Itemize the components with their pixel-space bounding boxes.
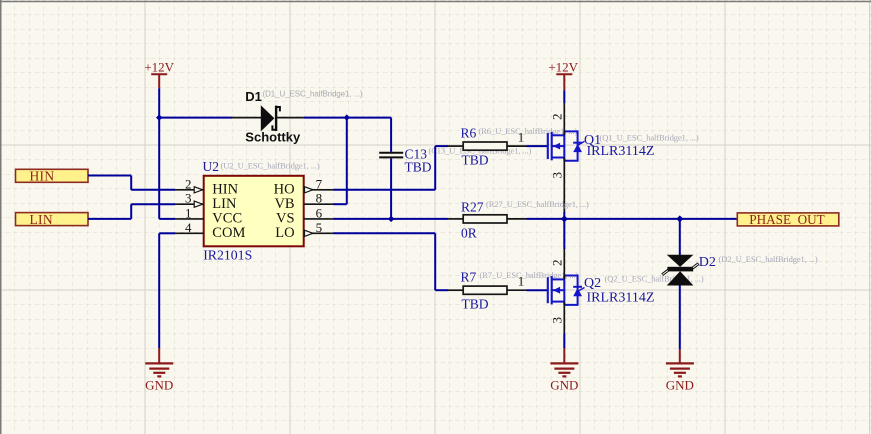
junction D1 cathode / VB riser bbox=[344, 114, 350, 120]
resistor R6 bbox=[448, 142, 527, 150]
D1 designator bbox=[245, 89, 262, 104]
C13 parameter text bbox=[429, 145, 532, 155]
Q2 source pin 3 bbox=[549, 302, 564, 334]
U2 pin 6 (VS) right bbox=[276, 205, 333, 226]
Q1 drain pin 2 bbox=[549, 103, 564, 135]
svg-text:3: 3 bbox=[549, 172, 564, 179]
svg-text:(D1_U_ESC_halfBridge1, ...): (D1_U_ESC_halfBridge1, ...) bbox=[263, 90, 363, 99]
U2 pin 8 (VB) right bbox=[274, 191, 333, 212]
capacitor C13 bbox=[379, 153, 403, 158]
svg-text:8: 8 bbox=[316, 191, 323, 206]
ground GND (left, COM) bbox=[145, 348, 173, 393]
svg-text:LO: LO bbox=[275, 225, 294, 241]
wire U2 LO to R7 bbox=[334, 233, 449, 290]
wire R7 to Q2 gate bbox=[527, 289, 548, 291]
svg-text:COM: COM bbox=[212, 225, 245, 241]
Q1 source pin 3 bbox=[549, 158, 564, 213]
D1 value Schottky bbox=[245, 130, 301, 145]
wire U2 COM to GND bbox=[159, 233, 175, 348]
wire Q2 source to GND bbox=[563, 334, 565, 349]
wire U2 HO to R6 bbox=[334, 146, 449, 190]
U2 part number IR2101S bbox=[203, 248, 252, 263]
wire D1 cathode to VB riser and C13 bbox=[304, 117, 392, 119]
wire phase node bbox=[527, 218, 738, 220]
ground GND (right, D2) bbox=[666, 349, 694, 392]
Q2 drain pin 2 bbox=[549, 249, 564, 279]
svg-text:Q2: Q2 bbox=[584, 276, 601, 291]
transistor Q1 body bbox=[548, 131, 582, 160]
svg-text:2: 2 bbox=[185, 176, 192, 191]
svg-text:7: 7 bbox=[316, 176, 323, 191]
svg-text:LIN: LIN bbox=[30, 212, 53, 227]
R7 pin 1 number bbox=[518, 274, 525, 289]
svg-text:TBD: TBD bbox=[462, 297, 489, 312]
svg-text:VB: VB bbox=[274, 196, 294, 212]
svg-text:0R: 0R bbox=[461, 225, 477, 240]
svg-text:+12V: +12V bbox=[144, 60, 174, 75]
diode D1 Schottky bbox=[232, 105, 304, 131]
svg-text:GND: GND bbox=[550, 378, 578, 393]
R6 parameter text bbox=[479, 126, 578, 136]
R6 pin 1 number bbox=[518, 129, 525, 144]
U2 pin 3 (LIN) left bbox=[175, 191, 237, 212]
Q1 part number IRLR3114Z bbox=[587, 144, 655, 159]
wire phase to D2 bbox=[679, 219, 681, 255]
wire D2 to GND bbox=[679, 286, 681, 350]
svg-text:2: 2 bbox=[549, 114, 564, 121]
R6 value TBD bbox=[462, 153, 489, 168]
svg-text:1: 1 bbox=[185, 205, 192, 220]
transistor Q2 body bbox=[548, 276, 582, 305]
U2 pin 1 (VCC) left bbox=[175, 205, 242, 226]
Q1 parameter text bbox=[600, 133, 699, 143]
op-amp U2 IR2101S body bbox=[204, 176, 304, 247]
svg-text:(R27_U_ESC_halfBridge1, ...): (R27_U_ESC_halfBridge1, ...) bbox=[486, 199, 589, 209]
wire VB riser bbox=[334, 118, 347, 205]
svg-text:U2: U2 bbox=[203, 159, 220, 174]
svg-text:IRLR3114Z: IRLR3114Z bbox=[587, 291, 655, 306]
svg-text:2: 2 bbox=[549, 260, 564, 267]
D2 parameter text bbox=[719, 254, 818, 264]
resistor R7 bbox=[448, 286, 527, 294]
junction C13 / VS row bbox=[388, 216, 394, 222]
svg-text:4: 4 bbox=[185, 220, 192, 235]
svg-text:R7: R7 bbox=[461, 270, 477, 285]
C13 designator bbox=[405, 147, 428, 162]
wire LIN to U2 pin 3 bbox=[88, 204, 175, 219]
svg-text:D1: D1 bbox=[245, 89, 262, 104]
R6 designator bbox=[461, 126, 477, 141]
wire Q1 source to phase bbox=[563, 212, 565, 219]
ground GND (middle, Q2 source) bbox=[550, 348, 578, 393]
Q2 part number IRLR3114Z bbox=[587, 291, 655, 306]
R27 value 0R bbox=[461, 225, 477, 240]
resistor R27 bbox=[448, 215, 527, 223]
svg-text:(D2_U_ESC_halfBridge1, ...): (D2_U_ESC_halfBridge1, ...) bbox=[719, 254, 818, 264]
Q1 designator bbox=[578, 133, 601, 148]
svg-text:TBD: TBD bbox=[405, 160, 432, 175]
svg-text:(U2_U_ESC_halfBridge1, ...): (U2_U_ESC_halfBridge1, ...) bbox=[221, 160, 320, 170]
diode D2 TVS bbox=[662, 255, 698, 286]
U2 pin 4 (COM) left bbox=[175, 220, 245, 241]
R7 parameter text bbox=[480, 270, 579, 280]
wire C13 top stem bbox=[390, 118, 392, 152]
Q2 parameter text bbox=[605, 273, 704, 283]
wire phase down to Q2 drain bbox=[563, 219, 565, 249]
R27 designator bbox=[461, 200, 484, 215]
svg-text:R27: R27 bbox=[461, 200, 484, 215]
wire R6 to Q1 gate bbox=[527, 145, 548, 147]
power +12V (left) bbox=[144, 60, 174, 89]
svg-text:GND: GND bbox=[145, 378, 173, 393]
svg-text:IRLR3114Z: IRLR3114Z bbox=[587, 144, 655, 159]
wire HIN to U2 pin 2 bbox=[88, 176, 175, 190]
svg-text:5: 5 bbox=[316, 220, 323, 235]
U2 parameter text bbox=[221, 160, 320, 170]
svg-text:PHASE OUT: PHASE OUT bbox=[749, 212, 824, 227]
wire C13 bottom stem to VS row bbox=[390, 158, 392, 219]
junction D2 / phase bbox=[676, 215, 683, 222]
svg-text:IR2101S: IR2101S bbox=[203, 248, 252, 263]
wire +12V rail to D1 anode bbox=[159, 117, 232, 119]
junction Q1 source / phase bbox=[561, 215, 568, 222]
U2 pin 7 (HO) right bbox=[274, 176, 334, 197]
svg-text:(Q1_U_ESC_halfBridge1, ...): (Q1_U_ESC_halfBridge1, ...) bbox=[600, 133, 699, 143]
svg-text:TBD: TBD bbox=[462, 153, 489, 168]
svg-text:1: 1 bbox=[518, 274, 525, 289]
svg-text:6: 6 bbox=[316, 205, 323, 220]
U2 pin 5 (LO) right bbox=[275, 220, 333, 241]
power +12V (right) bbox=[548, 60, 578, 91]
wire +12V to Q1 drain bbox=[563, 90, 565, 103]
junction +12V / D1 anode bbox=[156, 114, 162, 120]
svg-text:Schottky: Schottky bbox=[245, 130, 301, 145]
port HIN bbox=[16, 169, 89, 184]
R7 designator bbox=[461, 270, 477, 285]
svg-text:1: 1 bbox=[518, 129, 525, 144]
svg-text:3: 3 bbox=[549, 317, 564, 324]
svg-text:3: 3 bbox=[185, 191, 192, 206]
D1 parameter text bbox=[263, 90, 363, 99]
R27 parameter text bbox=[486, 199, 589, 209]
Q2 designator bbox=[578, 276, 601, 291]
svg-text:GND: GND bbox=[666, 378, 694, 393]
R7 value TBD bbox=[462, 297, 489, 312]
port LIN bbox=[16, 212, 89, 227]
svg-text:HIN: HIN bbox=[30, 169, 55, 184]
svg-text:LIN: LIN bbox=[212, 196, 237, 212]
wire U2 VS to R27 bbox=[334, 218, 449, 220]
svg-text:+12V: +12V bbox=[548, 60, 578, 75]
C13 value TBD bbox=[405, 160, 432, 175]
wire +12V stem to rail bbox=[158, 88, 160, 117]
U2 designator bbox=[203, 159, 220, 174]
D2 designator bbox=[699, 255, 716, 270]
svg-text:D2: D2 bbox=[699, 255, 716, 270]
wire +12V rail down to VCC bbox=[159, 118, 175, 219]
port PHASE OUT bbox=[737, 212, 839, 227]
U2 pin 2 (HIN) left bbox=[175, 176, 239, 197]
svg-text:R6: R6 bbox=[461, 126, 477, 141]
